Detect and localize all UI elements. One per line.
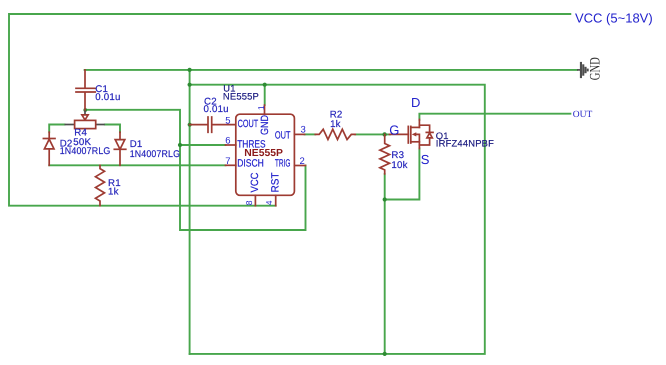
- svg-text:D: D: [411, 95, 420, 110]
- svg-text:DISCH: DISCH: [237, 158, 264, 170]
- svg-text:0.01u: 0.01u: [95, 92, 120, 103]
- svg-text:6: 6: [225, 136, 230, 147]
- svg-text:NE555P: NE555P: [244, 148, 283, 159]
- svg-text:0.01u: 0.01u: [204, 104, 229, 115]
- svg-text:4: 4: [264, 200, 274, 205]
- svg-text:GND: GND: [259, 115, 271, 135]
- svg-text:1N4007RLG: 1N4007RLG: [130, 149, 180, 160]
- svg-text:10k: 10k: [391, 160, 407, 171]
- svg-text:1N4007RLG: 1N4007RLG: [60, 146, 111, 157]
- svg-text:VCC: VCC: [249, 172, 261, 192]
- svg-text:5: 5: [225, 115, 230, 126]
- svg-text:3: 3: [301, 125, 306, 136]
- svg-text:RST: RST: [269, 172, 281, 193]
- svg-text:IRFZ44NPBF: IRFZ44NPBF: [436, 138, 494, 149]
- svg-text:2: 2: [300, 156, 305, 167]
- svg-text:1k: 1k: [108, 187, 119, 198]
- svg-text:8: 8: [244, 200, 254, 205]
- svg-text:1k: 1k: [330, 119, 341, 130]
- svg-text:OUT: OUT: [275, 129, 291, 141]
- svg-text:GND: GND: [587, 57, 603, 80]
- svg-text:1: 1: [256, 105, 266, 110]
- svg-text:COUT: COUT: [238, 118, 259, 130]
- svg-text:S: S: [421, 152, 430, 167]
- svg-text:OUT: OUT: [573, 110, 593, 120]
- svg-text:7: 7: [225, 156, 230, 167]
- svg-text:VCC (5~18V): VCC (5~18V): [575, 11, 653, 26]
- svg-text:G: G: [389, 122, 399, 137]
- svg-text:NE555P: NE555P: [223, 91, 259, 102]
